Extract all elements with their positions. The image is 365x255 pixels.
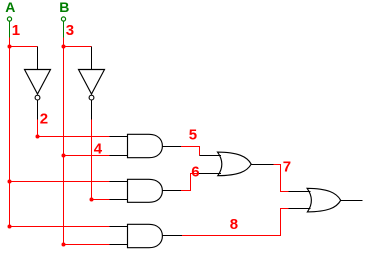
wire B to U5 input 2: [64, 244, 110, 246]
inverter U1 output pin: [37, 100, 39, 119]
and-gate U5 input pin 2: [110, 244, 128, 246]
or-gate U6: [218, 152, 252, 176]
svg-text:6: 6: [191, 164, 199, 181]
svg-text:1: 1: [12, 22, 20, 39]
and-gate U3: [128, 134, 163, 157]
svg-text:5: 5: [189, 127, 197, 144]
junction B to U3: [62, 154, 66, 158]
inverter U1: [25, 70, 51, 95]
junction B bottom corner: [62, 243, 66, 247]
or-gate U7: [307, 188, 341, 212]
and-gate U3 input pin 1: [110, 136, 128, 138]
and-gate U5 input pin 1: [110, 226, 128, 228]
and-gate U4 input pin 1: [110, 181, 128, 183]
svg-text:4: 4: [94, 141, 103, 158]
wire A terminal stub (green): [9, 21, 11, 37]
junction node 2: [36, 135, 40, 139]
svg-text:A: A: [5, 0, 15, 15]
or-gate U7 output pin: [341, 200, 363, 202]
junction A bottom corner: [8, 225, 12, 229]
and-gate U5 output pin: [162, 235, 182, 237]
inverter U2 input pin: [91, 47, 93, 70]
junction A top: [8, 45, 12, 49]
wire A to inverter U1: [10, 46, 38, 48]
svg-text:8: 8: [230, 216, 238, 233]
junction node 4: [90, 198, 94, 202]
inverter U1 input pin: [37, 47, 39, 70]
svg-text:7: 7: [283, 159, 291, 176]
and-gate U4 input pin 2: [110, 199, 128, 201]
input terminal B: [61, 17, 65, 21]
wire B terminal stub (green): [63, 21, 65, 37]
and-gate U4: [128, 179, 163, 202]
wire node 2 horizontal: [38, 136, 110, 138]
or-gate U7 input pin 2: [289, 208, 311, 210]
svg-text:3: 3: [66, 22, 74, 39]
and-gate U3 output pin: [162, 146, 181, 148]
wire A vertical: [9, 37, 11, 227]
and-gate U5: [128, 224, 163, 247]
inverter U2 output pin: [91, 100, 93, 119]
wire A to U5 input 1: [10, 226, 110, 228]
or-gate U6 output pin: [251, 164, 273, 166]
wire A to U4 input 1: [10, 181, 110, 183]
wire node 8: [182, 209, 289, 236]
inverter U2 bubble: [89, 95, 94, 100]
wire node 2 vertical: [37, 119, 39, 136]
wire B vertical: [63, 37, 65, 244]
wire B to U3 input 2: [64, 155, 110, 157]
svg-text:B: B: [59, 0, 69, 15]
svg-text:2: 2: [40, 111, 48, 128]
wire node 6: [181, 174, 199, 191]
or-gate U6 input pin 1: [200, 155, 222, 157]
inverter U2: [79, 70, 105, 95]
wire node 4 vertical: [91, 119, 93, 199]
or-gate U6 input pin 2: [199, 173, 221, 175]
and-gate U4 output pin: [162, 190, 181, 192]
wire node 7: [274, 165, 289, 192]
wire B to inverter U2: [64, 46, 92, 48]
or-gate U7 input pin 1: [289, 191, 311, 193]
junction A to U4: [8, 180, 12, 184]
junction B top: [62, 45, 66, 49]
and-gate U3 input pin 2: [110, 155, 128, 157]
wire node 5: [181, 147, 200, 156]
inverter U1 bubble: [35, 95, 40, 100]
input terminal A: [7, 17, 11, 21]
wire node 4 horizontal: [92, 199, 110, 201]
